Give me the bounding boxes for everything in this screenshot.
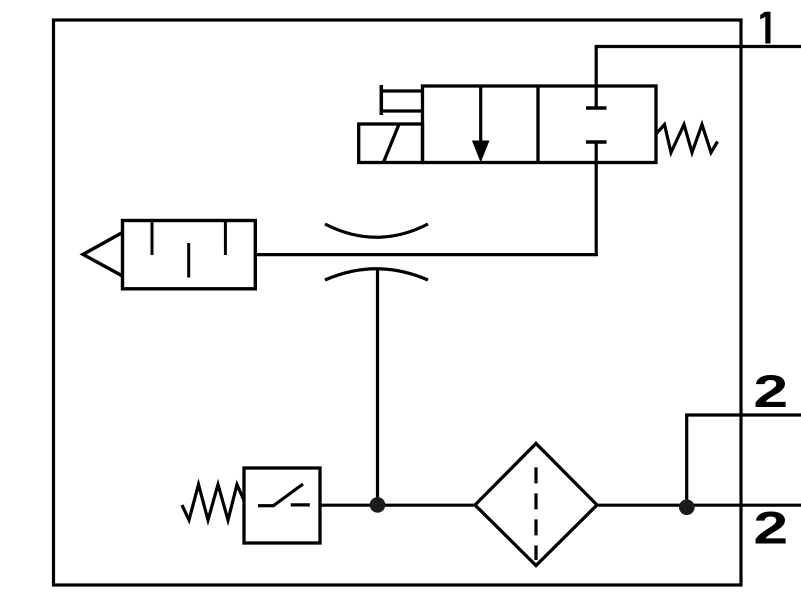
svg-text:2: 2 [753,367,788,417]
svg-text:2: 2 [753,503,788,553]
